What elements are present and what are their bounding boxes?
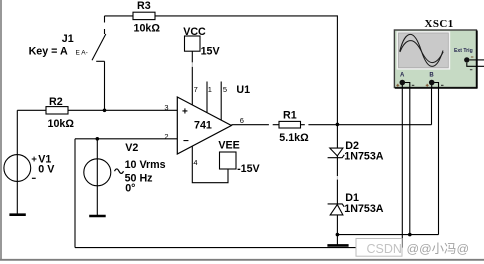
power VCC <box>185 36 201 51</box>
svg-text:VEE: VEE <box>218 140 239 152</box>
svg-text:+: + <box>182 107 188 118</box>
wire op-amp output to R1 <box>231 124 279 126</box>
node input junction dot <box>103 109 107 113</box>
svg-text:E A-: E A- <box>76 50 88 57</box>
oscilloscope body shadow edges <box>476 31 478 89</box>
wire between D2 and D1 <box>336 156 338 205</box>
oscilloscope XSC1 body <box>394 30 476 88</box>
node diode ground junction dot <box>336 233 340 237</box>
wire R2 to op-amp pin 3 <box>68 109 177 111</box>
V1 plus polarity mark <box>32 158 37 160</box>
Ext Trig plus mark <box>471 56 474 58</box>
wire V2 stem vertical <box>96 139 98 216</box>
wire scope A+ vertical <box>401 88 403 248</box>
watermark CSDN box <box>356 239 402 257</box>
switch J1 top contact <box>104 29 106 34</box>
node A- ground junction dot <box>408 233 412 237</box>
svg-text:1: 1 <box>208 85 212 94</box>
svg-text:@@小冯@: @@小冯@ <box>407 242 470 256</box>
wire gap artifact on VCC stem <box>191 62 194 67</box>
svg-text:10kΩ: 10kΩ <box>48 118 75 130</box>
svg-text:1N753A: 1N753A <box>344 203 383 215</box>
wire scope A- stub inside panel <box>405 83 410 89</box>
svg-text:2: 2 <box>164 132 168 141</box>
svg-text:-15V: -15V <box>237 163 260 175</box>
wire bottom loop to scope A <box>75 247 402 249</box>
zener diode D2 <box>328 148 345 158</box>
svg-text:Ext Trig: Ext Trig <box>454 48 473 54</box>
wire scope B+ vertical <box>431 88 433 125</box>
wire output node down to D2 <box>336 124 338 148</box>
wire ground node to scope minus terminals <box>337 234 438 236</box>
oscilloscope waveform large <box>400 34 443 66</box>
oscilloscope channel B terminal <box>429 80 435 86</box>
op-amp pin 5 stub <box>220 82 222 121</box>
svg-text:741: 741 <box>194 120 212 132</box>
zener diode D1 <box>328 204 345 215</box>
wire D1 to ground node <box>336 215 338 245</box>
wire scope A+ stub inside panel <box>401 84 403 89</box>
svg-text:R3: R3 <box>137 0 151 12</box>
wire gap artifact left of R1 <box>269 124 273 126</box>
svg-text:1N753A: 1N753A <box>344 150 383 162</box>
power VEE <box>220 152 237 169</box>
wire scope B- vertical <box>438 88 440 235</box>
wire V1 to R2 <box>17 109 46 111</box>
wire op-amp pin 7 to VCC <box>191 51 193 105</box>
wire left loop vertical <box>74 139 76 248</box>
svg-text:R1: R1 <box>283 109 297 121</box>
source V1 <box>4 155 31 182</box>
svg-text:5.1kΩ: 5.1kΩ <box>279 132 309 144</box>
ground for V1 <box>9 213 25 216</box>
channel A plus mark <box>396 84 399 86</box>
resistor R2 <box>46 107 68 114</box>
switch J1 bottom stub to input node <box>104 61 106 110</box>
svg-text:−: − <box>183 136 189 147</box>
svg-text:15V: 15V <box>201 46 221 58</box>
V1 minus polarity mark <box>32 177 36 179</box>
channel B plus mark <box>426 84 429 86</box>
svg-text:A: A <box>400 73 405 79</box>
oscilloscope Ext Trig terminal <box>464 57 469 62</box>
wire feedback vertical drop to output node <box>336 15 338 124</box>
switch J1 top stub <box>104 16 106 23</box>
wire scope B- stub inside panel <box>434 83 438 89</box>
svg-text:V2: V2 <box>125 142 138 154</box>
svg-text:10 Vrms: 10 Vrms <box>125 159 166 171</box>
Ext Trig minus mark <box>470 69 473 71</box>
source V2 <box>84 159 111 186</box>
wire Ext Trig plus stub <box>470 59 484 61</box>
svg-text:D1: D1 <box>345 192 359 204</box>
svg-text:4: 4 <box>193 158 197 167</box>
wire scope B+ stub inside panel <box>431 84 433 89</box>
oscilloscope waveform small <box>400 41 443 63</box>
svg-text:B: B <box>429 73 434 79</box>
wire top feedback right of R3 <box>155 15 337 17</box>
svg-text:CSDN: CSDN <box>367 242 402 256</box>
oscilloscope screen bezel <box>397 31 451 69</box>
op-amp pin 1 stub <box>206 82 208 113</box>
wire V1 stem vertical <box>16 110 18 214</box>
svg-text:5: 5 <box>223 85 227 94</box>
svg-text:R2: R2 <box>49 96 63 108</box>
wire top feedback from switch to output node <box>105 15 134 17</box>
svg-text:VCC: VCC <box>183 26 206 38</box>
op-amp U1 741 <box>177 97 231 154</box>
node output junction dot <box>336 123 340 127</box>
node V2 junction dot <box>96 137 100 141</box>
wire op-amp pin 4 to VEE <box>192 146 228 183</box>
wire scope A- vertical <box>409 88 411 235</box>
oscilloscope screen <box>399 33 449 68</box>
oscilloscope channel A terminal <box>400 80 406 86</box>
channel B minus mark <box>441 84 444 86</box>
svg-text:U1: U1 <box>236 84 250 96</box>
switch J1 lever <box>92 34 106 60</box>
svg-text:Key = A: Key = A <box>29 45 68 57</box>
svg-text:3: 3 <box>164 103 168 112</box>
resistor R1 <box>279 121 301 128</box>
svg-text:10kΩ: 10kΩ <box>134 23 161 35</box>
ground for diode chain <box>327 244 348 247</box>
wire gap artifact right of R1 <box>305 124 309 126</box>
svg-text:0°: 0° <box>125 183 135 195</box>
svg-text:XSC1: XSC1 <box>425 18 454 30</box>
ground for V2 <box>89 215 106 218</box>
svg-text:7: 7 <box>194 85 198 94</box>
switch J1 bottom contact tick <box>96 60 104 62</box>
resistor R3 <box>133 12 155 19</box>
V2 tilde <box>115 169 124 174</box>
wire R1 to scope B+ <box>301 124 432 126</box>
svg-text:6: 6 <box>240 116 244 125</box>
svg-text:J1: J1 <box>62 33 74 45</box>
svg-text:0 V: 0 V <box>38 164 55 176</box>
wire V2 node to op-amp pin 2 <box>75 138 177 140</box>
wire gap artifact between D2 and D1 <box>336 176 338 180</box>
channel A minus mark <box>412 84 415 86</box>
wire Ext Trig minus stub <box>467 63 484 67</box>
